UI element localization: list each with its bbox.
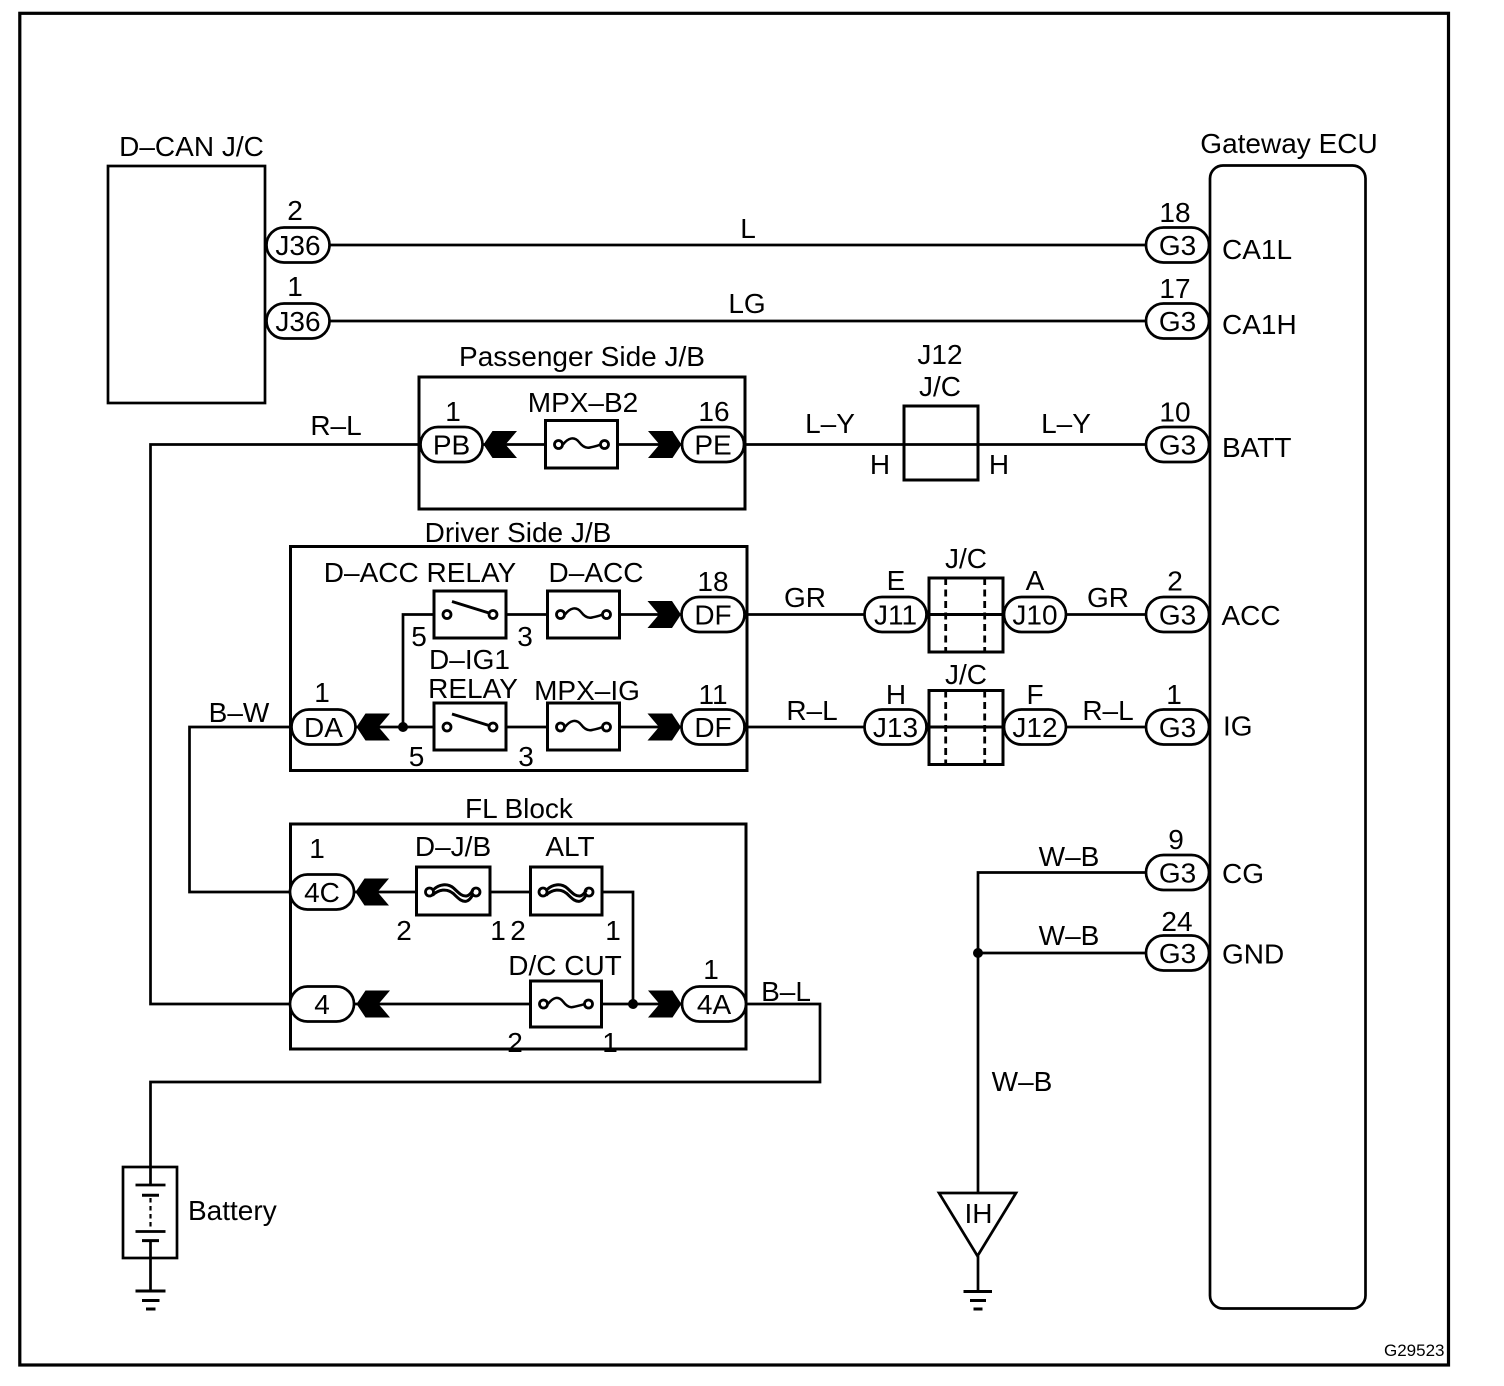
- svg-text:11: 11: [698, 679, 727, 710]
- fuse D/C CUT: [531, 981, 602, 1027]
- svg-text:A: A: [1026, 565, 1045, 596]
- svg-text:G3: G3: [1159, 938, 1196, 969]
- svg-text:1: 1: [287, 271, 303, 302]
- svg-text:G3: G3: [1159, 430, 1196, 461]
- wire D/C CUT fuse to 4A: [602, 1003, 683, 1006]
- svg-text:IH: IH: [965, 1198, 993, 1229]
- svg-text:W–B: W–B: [1039, 920, 1100, 951]
- svg-text:2: 2: [507, 1027, 523, 1058]
- svg-text:D/C CUT: D/C CUT: [508, 950, 622, 981]
- svg-text:J10: J10: [1012, 600, 1057, 631]
- wire R-L from MPX-IG fuse through DF J13 J/C J12 to G3 IG: [620, 726, 1147, 729]
- svg-text:3: 3: [517, 621, 533, 652]
- arrow out to DF 11: [648, 714, 682, 741]
- wire B-L from 4A down to battery: [151, 1004, 821, 1185]
- svg-text:J13: J13: [873, 712, 918, 743]
- svg-text:PB: PB: [433, 430, 470, 461]
- connector G3 pin 9: [1146, 855, 1209, 890]
- wire 4C to D-J/B link: [354, 891, 417, 894]
- svg-text:R–L: R–L: [310, 410, 361, 441]
- connector PB pin 1: [421, 427, 483, 462]
- svg-text:MPX–IG: MPX–IG: [534, 675, 640, 706]
- connector J13 pin H: [865, 710, 927, 745]
- connector J12 J/C box (BATT row): [904, 406, 978, 480]
- svg-text:F: F: [1026, 679, 1043, 710]
- connector DA pin 1: [292, 710, 356, 745]
- battery plates: [149, 1167, 152, 1185]
- connector DF pin 18: [682, 597, 745, 632]
- wire LG row: [329, 320, 1146, 323]
- svg-text:GR: GR: [784, 582, 826, 613]
- svg-text:J12: J12: [1012, 712, 1057, 743]
- wire W-B CG row: [978, 873, 1146, 1194]
- svg-text:Battery: Battery: [188, 1195, 277, 1226]
- svg-text:H: H: [989, 449, 1009, 480]
- connector J36 pin 1: [267, 304, 330, 339]
- fusible link D-J/B: [417, 867, 491, 915]
- svg-text:1: 1: [1166, 679, 1182, 710]
- arrow into 4C: [356, 879, 390, 906]
- node junction W-B: [973, 948, 983, 958]
- D-CAN J/C box: [108, 166, 265, 403]
- svg-text:17: 17: [1159, 273, 1190, 304]
- fusible link ALT: [531, 867, 603, 915]
- wire D-J/B link to ALT link: [490, 891, 531, 894]
- connector G3 pin 24: [1146, 936, 1209, 971]
- svg-text:4: 4: [314, 989, 330, 1020]
- svg-text:2: 2: [396, 915, 412, 946]
- svg-text:G3: G3: [1159, 230, 1196, 261]
- Gateway ECU box: [1210, 166, 1366, 1309]
- svg-text:J/C: J/C: [919, 371, 961, 402]
- svg-text:9: 9: [1168, 824, 1184, 855]
- wire B-W from DA down to 4C: [190, 727, 292, 892]
- connector 4: [290, 987, 354, 1022]
- battery box: [123, 1167, 177, 1258]
- fuse MPX-B2: [546, 421, 618, 469]
- svg-text:DA: DA: [304, 712, 343, 743]
- svg-text:J36: J36: [275, 230, 320, 261]
- svg-text:18: 18: [1159, 197, 1190, 228]
- arrow out to PE: [648, 431, 682, 458]
- svg-text:5: 5: [411, 621, 427, 652]
- svg-text:5: 5: [409, 741, 425, 772]
- svg-text:2: 2: [1167, 566, 1183, 597]
- wire relay feed vertical to D-ACC relay: [403, 615, 434, 728]
- node junction D/C CUT output: [628, 999, 638, 1009]
- fuse MPX-IG: [548, 703, 620, 750]
- relay D-IG1 RELAY: [434, 703, 506, 750]
- svg-text:1: 1: [314, 677, 330, 708]
- svg-text:2: 2: [510, 915, 526, 946]
- svg-text:L–Y: L–Y: [1041, 408, 1091, 439]
- svg-text:Gateway ECU: Gateway ECU: [1200, 128, 1377, 159]
- svg-text:ALT: ALT: [545, 831, 594, 862]
- svg-text:G3: G3: [1159, 712, 1196, 743]
- svg-text:2: 2: [287, 195, 303, 226]
- wire DA to relay2: [356, 726, 435, 729]
- connector G3 pin 2: [1146, 597, 1209, 632]
- svg-text:BATT: BATT: [1222, 432, 1291, 463]
- svg-text:Driver Side J/B: Driver Side J/B: [425, 517, 612, 548]
- wire L row: [329, 244, 1146, 247]
- svg-text:D–J/B: D–J/B: [415, 831, 491, 862]
- svg-text:J12: J12: [917, 339, 962, 370]
- svg-text:DF: DF: [694, 712, 731, 743]
- svg-text:H: H: [886, 679, 906, 710]
- svg-text:E: E: [887, 565, 906, 596]
- svg-text:D–CAN J/C: D–CAN J/C: [119, 131, 264, 162]
- arrow out to 4A: [648, 991, 682, 1018]
- svg-text:1: 1: [602, 1027, 618, 1058]
- wire ALT link down to D/C CUT output node: [602, 892, 633, 1004]
- connector J11 pin E: [865, 597, 927, 632]
- svg-text:CA1L: CA1L: [1222, 234, 1292, 265]
- wire PB to MPX-B2 fuse: [481, 443, 546, 446]
- connector G3 pin 1: [1146, 710, 1209, 745]
- svg-text:G29523: G29523: [1384, 1341, 1445, 1360]
- svg-text:B–W: B–W: [209, 697, 270, 728]
- svg-text:16: 16: [698, 396, 729, 427]
- svg-text:DF: DF: [694, 600, 731, 631]
- svg-text:CG: CG: [1222, 858, 1264, 889]
- svg-text:Passenger Side J/B: Passenger Side J/B: [459, 341, 705, 372]
- connector J36 pin 2: [267, 228, 330, 263]
- svg-text:PE: PE: [694, 430, 731, 461]
- svg-text:LG: LG: [728, 288, 765, 319]
- relay D-ACC RELAY: [434, 591, 506, 638]
- wire W-B GND row: [978, 952, 1146, 955]
- arrow into PB: [484, 431, 518, 458]
- svg-text:ACC: ACC: [1222, 600, 1281, 631]
- svg-text:H: H: [870, 449, 890, 480]
- connector 4C pin 1: [290, 875, 354, 910]
- arrow into 4: [357, 991, 391, 1018]
- svg-text:4A: 4A: [697, 989, 732, 1020]
- svg-text:1: 1: [605, 915, 621, 946]
- ground IH: [964, 1290, 993, 1293]
- svg-text:D–ACC RELAY: D–ACC RELAY: [324, 557, 517, 588]
- arrow out to DF 18: [648, 601, 682, 628]
- svg-text:G3: G3: [1159, 306, 1196, 337]
- svg-text:1: 1: [490, 915, 506, 946]
- connector G3 pin 10: [1146, 427, 1209, 462]
- Driver Side J/B box: [291, 547, 748, 771]
- svg-text:RELAY: RELAY: [428, 673, 518, 704]
- svg-text:J36: J36: [275, 306, 320, 337]
- svg-text:CA1H: CA1H: [1222, 309, 1297, 340]
- arrow into DA: [357, 714, 391, 741]
- Passenger Side J/B box: [419, 377, 745, 509]
- wire R-L from PB to battery feed vertical: [151, 445, 421, 1005]
- svg-text:MPX–B2: MPX–B2: [528, 387, 639, 418]
- svg-text:W–B: W–B: [992, 1066, 1053, 1097]
- connector G3 pin 17: [1146, 304, 1209, 339]
- svg-text:L: L: [740, 213, 756, 244]
- connector J12 pin F: [1004, 710, 1066, 745]
- node junction relay feed: [398, 722, 408, 732]
- svg-text:1: 1: [703, 954, 719, 985]
- connector J10 pin A: [1004, 597, 1066, 632]
- fuse D-ACC: [548, 591, 620, 638]
- ground battery: [136, 1290, 166, 1293]
- wire 4 oval to D/C CUT fuse: [354, 1003, 531, 1006]
- svg-text:1: 1: [445, 396, 461, 427]
- svg-text:J/C: J/C: [945, 543, 987, 574]
- svg-text:R–L: R–L: [786, 695, 837, 726]
- wire GR from D-ACC fuse through DF J11 J/C J10 to G3 ACC: [620, 613, 1147, 616]
- wire relay1 to D-ACC fuse: [506, 613, 548, 616]
- connector DF pin 11: [682, 710, 745, 745]
- svg-text:10: 10: [1159, 397, 1190, 428]
- svg-text:4C: 4C: [304, 877, 340, 908]
- wire relay2 to MPX-IG fuse: [506, 726, 548, 729]
- wire MPX-B2 fuse to PE: [618, 443, 683, 446]
- connector J/C dashed box (IG row): [929, 691, 1003, 765]
- svg-text:J11: J11: [874, 600, 917, 631]
- svg-text:GND: GND: [1222, 939, 1284, 970]
- svg-text:L–Y: L–Y: [805, 408, 855, 439]
- svg-text:FL Block: FL Block: [465, 793, 574, 824]
- svg-text:1: 1: [309, 833, 325, 864]
- connector 4A pin 1: [682, 987, 746, 1022]
- svg-text:IG: IG: [1223, 711, 1253, 742]
- connector IH triangle: [939, 1193, 1016, 1256]
- FL Block box: [291, 824, 747, 1049]
- svg-text:24: 24: [1161, 906, 1192, 937]
- svg-text:W–B: W–B: [1039, 841, 1100, 872]
- svg-text:D–ACC: D–ACC: [549, 557, 644, 588]
- connector J/C dashed box (ACC row): [929, 578, 1003, 652]
- connector PE pin 16: [682, 427, 744, 462]
- connector G3 pin 18: [1146, 228, 1209, 263]
- svg-text:R–L: R–L: [1082, 695, 1133, 726]
- svg-text:18: 18: [697, 566, 728, 597]
- svg-text:J/C: J/C: [945, 659, 987, 690]
- svg-text:G3: G3: [1159, 858, 1196, 889]
- svg-text:GR: GR: [1087, 582, 1129, 613]
- svg-text:B–L: B–L: [761, 976, 811, 1007]
- svg-text:3: 3: [518, 741, 534, 772]
- wire L-Y from PE through J12 J/C to G3 BATT: [744, 443, 1146, 446]
- svg-text:D–IG1: D–IG1: [429, 644, 510, 675]
- svg-text:G3: G3: [1159, 600, 1196, 631]
